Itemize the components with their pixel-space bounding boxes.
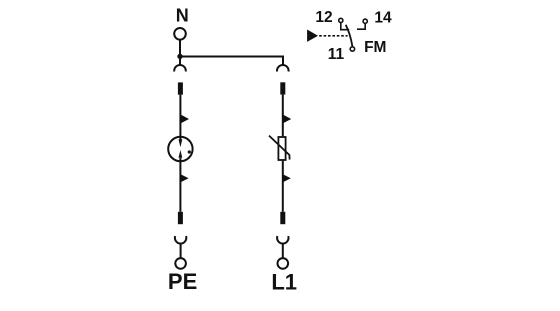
svg-text:12: 12 (315, 9, 332, 26)
svg-text:14: 14 (374, 9, 392, 26)
svg-text:PE: PE (168, 269, 197, 294)
svg-text:11: 11 (328, 46, 345, 63)
svg-text:N: N (176, 6, 189, 26)
svg-text:L1: L1 (271, 270, 297, 295)
svg-text:FM: FM (364, 39, 386, 56)
